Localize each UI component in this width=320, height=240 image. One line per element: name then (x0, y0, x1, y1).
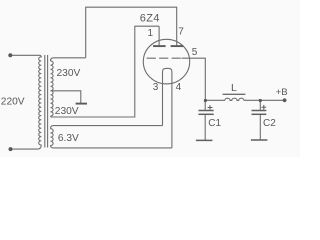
svg-text:230V: 230V (57, 68, 81, 79)
svg-text:1: 1 (148, 28, 154, 39)
svg-text:6.3V: 6.3V (58, 133, 79, 144)
svg-text:230V: 230V (55, 106, 79, 117)
svg-text:3: 3 (153, 82, 159, 93)
svg-text:C2: C2 (263, 118, 276, 129)
svg-text:L: L (231, 82, 237, 94)
svg-text:C1: C1 (208, 118, 221, 129)
svg-text:7: 7 (178, 26, 184, 37)
svg-text:6Z4: 6Z4 (140, 13, 160, 25)
svg-text:5: 5 (192, 47, 198, 58)
svg-text:+B: +B (276, 87, 288, 98)
svg-text:4: 4 (176, 82, 182, 93)
svg-text:220V: 220V (1, 96, 25, 107)
